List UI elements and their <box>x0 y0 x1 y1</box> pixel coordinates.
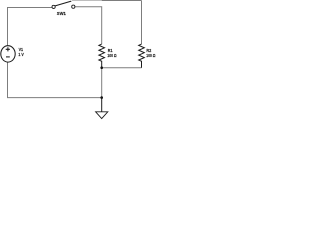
svg-text:1 V: 1 V <box>18 52 23 57</box>
svg-text:100 Ω: 100 Ω <box>107 53 116 58</box>
svg-text:SW1: SW1 <box>57 11 66 16</box>
svg-text:100 Ω: 100 Ω <box>146 53 155 58</box>
